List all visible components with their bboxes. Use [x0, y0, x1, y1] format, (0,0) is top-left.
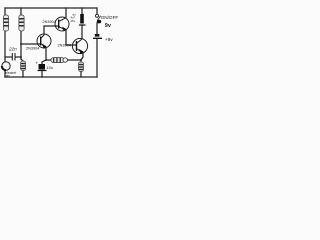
- wire C1 left lead: [5, 56, 12, 58]
- svg-text:+: +: [36, 61, 39, 66]
- resistor R2: [19, 15, 24, 31]
- microphone MIC electret: [2, 62, 10, 70]
- wire R1 top lead: [4, 8, 6, 15]
- wire switch top lead: [96, 8, 98, 14]
- svg-text:2N3904: 2N3904: [58, 44, 71, 48]
- svg-text:mic: mic: [5, 74, 10, 78]
- wire battery to bottom rail: [96, 39, 98, 77]
- wire base node to R3: [21, 59, 23, 61]
- wire R4 left lead: [46, 59, 51, 61]
- svg-text:22n: 22n: [8, 47, 17, 52]
- svg-text:2N3904: 2N3904: [43, 20, 56, 24]
- wire C1 right lead: [16, 56, 22, 58]
- resistor R1: [3, 15, 8, 31]
- node out junction: [80, 59, 82, 61]
- wire R3 bottom lead: [22, 70, 24, 77]
- wire Q3 emitter down to out node: [81, 54, 83, 61]
- wire C2 branch down: [42, 60, 46, 64]
- resistor R3: [21, 61, 26, 71]
- wire C2 bottom lead: [41, 71, 43, 78]
- transistor Q1: [37, 34, 51, 49]
- transistor Q2: [55, 17, 69, 31]
- wire top rail: [5, 7, 97, 9]
- svg-text:9v: 9v: [105, 23, 112, 29]
- svg-text:10u: 10u: [47, 66, 54, 70]
- wire R5 bottom lead: [80, 71, 82, 77]
- wire bottom rail: [5, 76, 97, 78]
- wire mic to bottom rail: [4, 70, 6, 77]
- svg-text:25v: 25v: [71, 19, 76, 23]
- switch S1: [96, 14, 102, 23]
- resistor R4 horizontal with ring end: [51, 58, 67, 63]
- wire Q1 collector up and right to Q2 base: [44, 26, 58, 34]
- node emitter junction: [45, 59, 47, 61]
- wire switch to battery: [96, 23, 98, 34]
- capacitor C2 10u electrolytic: [38, 64, 47, 71]
- wire Q3 collector up to C3: [81, 26, 83, 39]
- svg-text:ON/OFF: ON/OFF: [101, 15, 119, 20]
- battery B1: [93, 34, 102, 38]
- wire C3 top lead to rail: [81, 8, 83, 14]
- wire R1 bottom to mic node: [4, 31, 6, 62]
- capacitor C1 22n plates: [12, 53, 15, 61]
- wire out node to R5: [80, 60, 82, 62]
- capacitor C3 electrolytic on Q3 collector: [79, 14, 86, 25]
- transistor Q3: [72, 38, 87, 54]
- wire R4 right lead to out node: [68, 59, 82, 61]
- wire Q1 emitter down: [45, 48, 47, 60]
- svg-text:+9v: +9v: [105, 37, 113, 43]
- node base junction: [20, 43, 22, 45]
- wire R2 top lead: [20, 8, 22, 15]
- wire Q2 emitter down and right to Q3 base: [66, 31, 76, 46]
- svg-text:2N3904: 2N3904: [26, 47, 39, 51]
- wire Q2 collector to top rail: [65, 8, 67, 18]
- resistor R5: [79, 62, 84, 72]
- wire base node vertical: [20, 31, 22, 59]
- node cap junction: [20, 56, 22, 58]
- wire base tap to Q1 base: [21, 43, 40, 45]
